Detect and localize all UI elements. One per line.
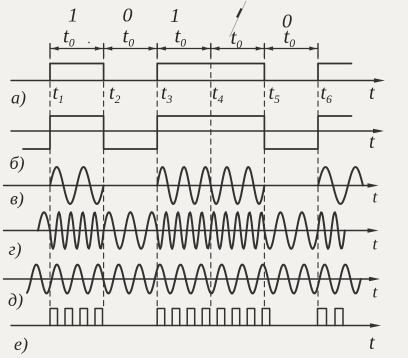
svg-text:1: 1 [68,5,78,27]
pulse 10 row e [232,309,240,326]
svg-text:е): е) [14,334,28,355]
axis row e with arrow [11,325,373,327]
svg-text:а): а) [11,88,26,109]
pulse 12 row e [262,309,270,326]
svg-text:г): г) [9,239,22,260]
speck after t0 segment 1 [88,42,90,44]
pulse 5 row e [157,309,165,326]
svg-text:t: t [369,131,375,153]
waveform row a: unipolar binary pulses [50,64,104,81]
t0 dimension arrowheads segment 3 [158,46,166,50]
svg-text:д): д) [8,290,23,311]
dimension tick at t1 [49,44,51,58]
t0 dimension arrowheads segment 5 [266,46,274,50]
dashed bit-boundary line t5 [263,44,265,309]
dashed bit-boundary line t3 [156,44,158,309]
bit value 1 (fourth, slash with artifact line) [230,1,247,37]
pulse 7 row e [187,309,195,326]
dashed bit-boundary line t2 [103,44,105,309]
dimension tick at t5 [263,44,265,58]
waveform row d: PSK signal [27,265,361,294]
waveform row v: ASK burst bit1 [50,167,104,204]
pulse 13 row e [318,309,327,326]
waveform row v: ASK burst bits 3-4 [157,167,264,204]
svg-text:t: t [369,82,375,104]
t0 dimension arrowheads segment 1 [51,46,59,50]
axis row v with arrow [4,185,371,187]
svg-text:t: t [369,332,375,354]
pulse 8 row e [202,309,210,326]
dimension tick at t4 [210,44,212,58]
dimension tick at t6 [317,44,319,58]
pulse 14 row e [335,309,343,326]
svg-text:в): в) [10,189,24,210]
dashed bit-boundary line t4 [210,44,212,309]
dashed bit-boundary line t1 [49,44,51,309]
svg-text:б): б) [10,153,25,174]
dimension tick at t3 [156,44,158,58]
t0 dimension arrowheads segment 2 [105,46,113,50]
pulse 9 row e [217,309,225,326]
t0 dimension line [50,48,318,50]
t0 dimension arrowheads segment 4 [212,46,220,50]
pulse 11 row e [247,309,255,326]
axis row b with arrow [11,130,376,132]
pulse 1 row e [50,309,58,326]
waveform row b: bipolar binary pulses [23,116,352,149]
dashed bit-boundary line t6 [317,44,319,309]
pulse 4 row e [95,309,103,326]
dimension tick at t2 [103,44,105,58]
pulse 6 row e [172,309,180,326]
pulse 2 row e [65,309,73,326]
pulse 3 row e [80,309,88,326]
axis row g with arrow [4,230,371,232]
waveform row v: ASK burst after t6 [318,167,363,204]
axis row a with arrow [11,80,377,82]
waveform row g: FSK signal [38,212,345,249]
axis row d with arrow [4,278,372,280]
